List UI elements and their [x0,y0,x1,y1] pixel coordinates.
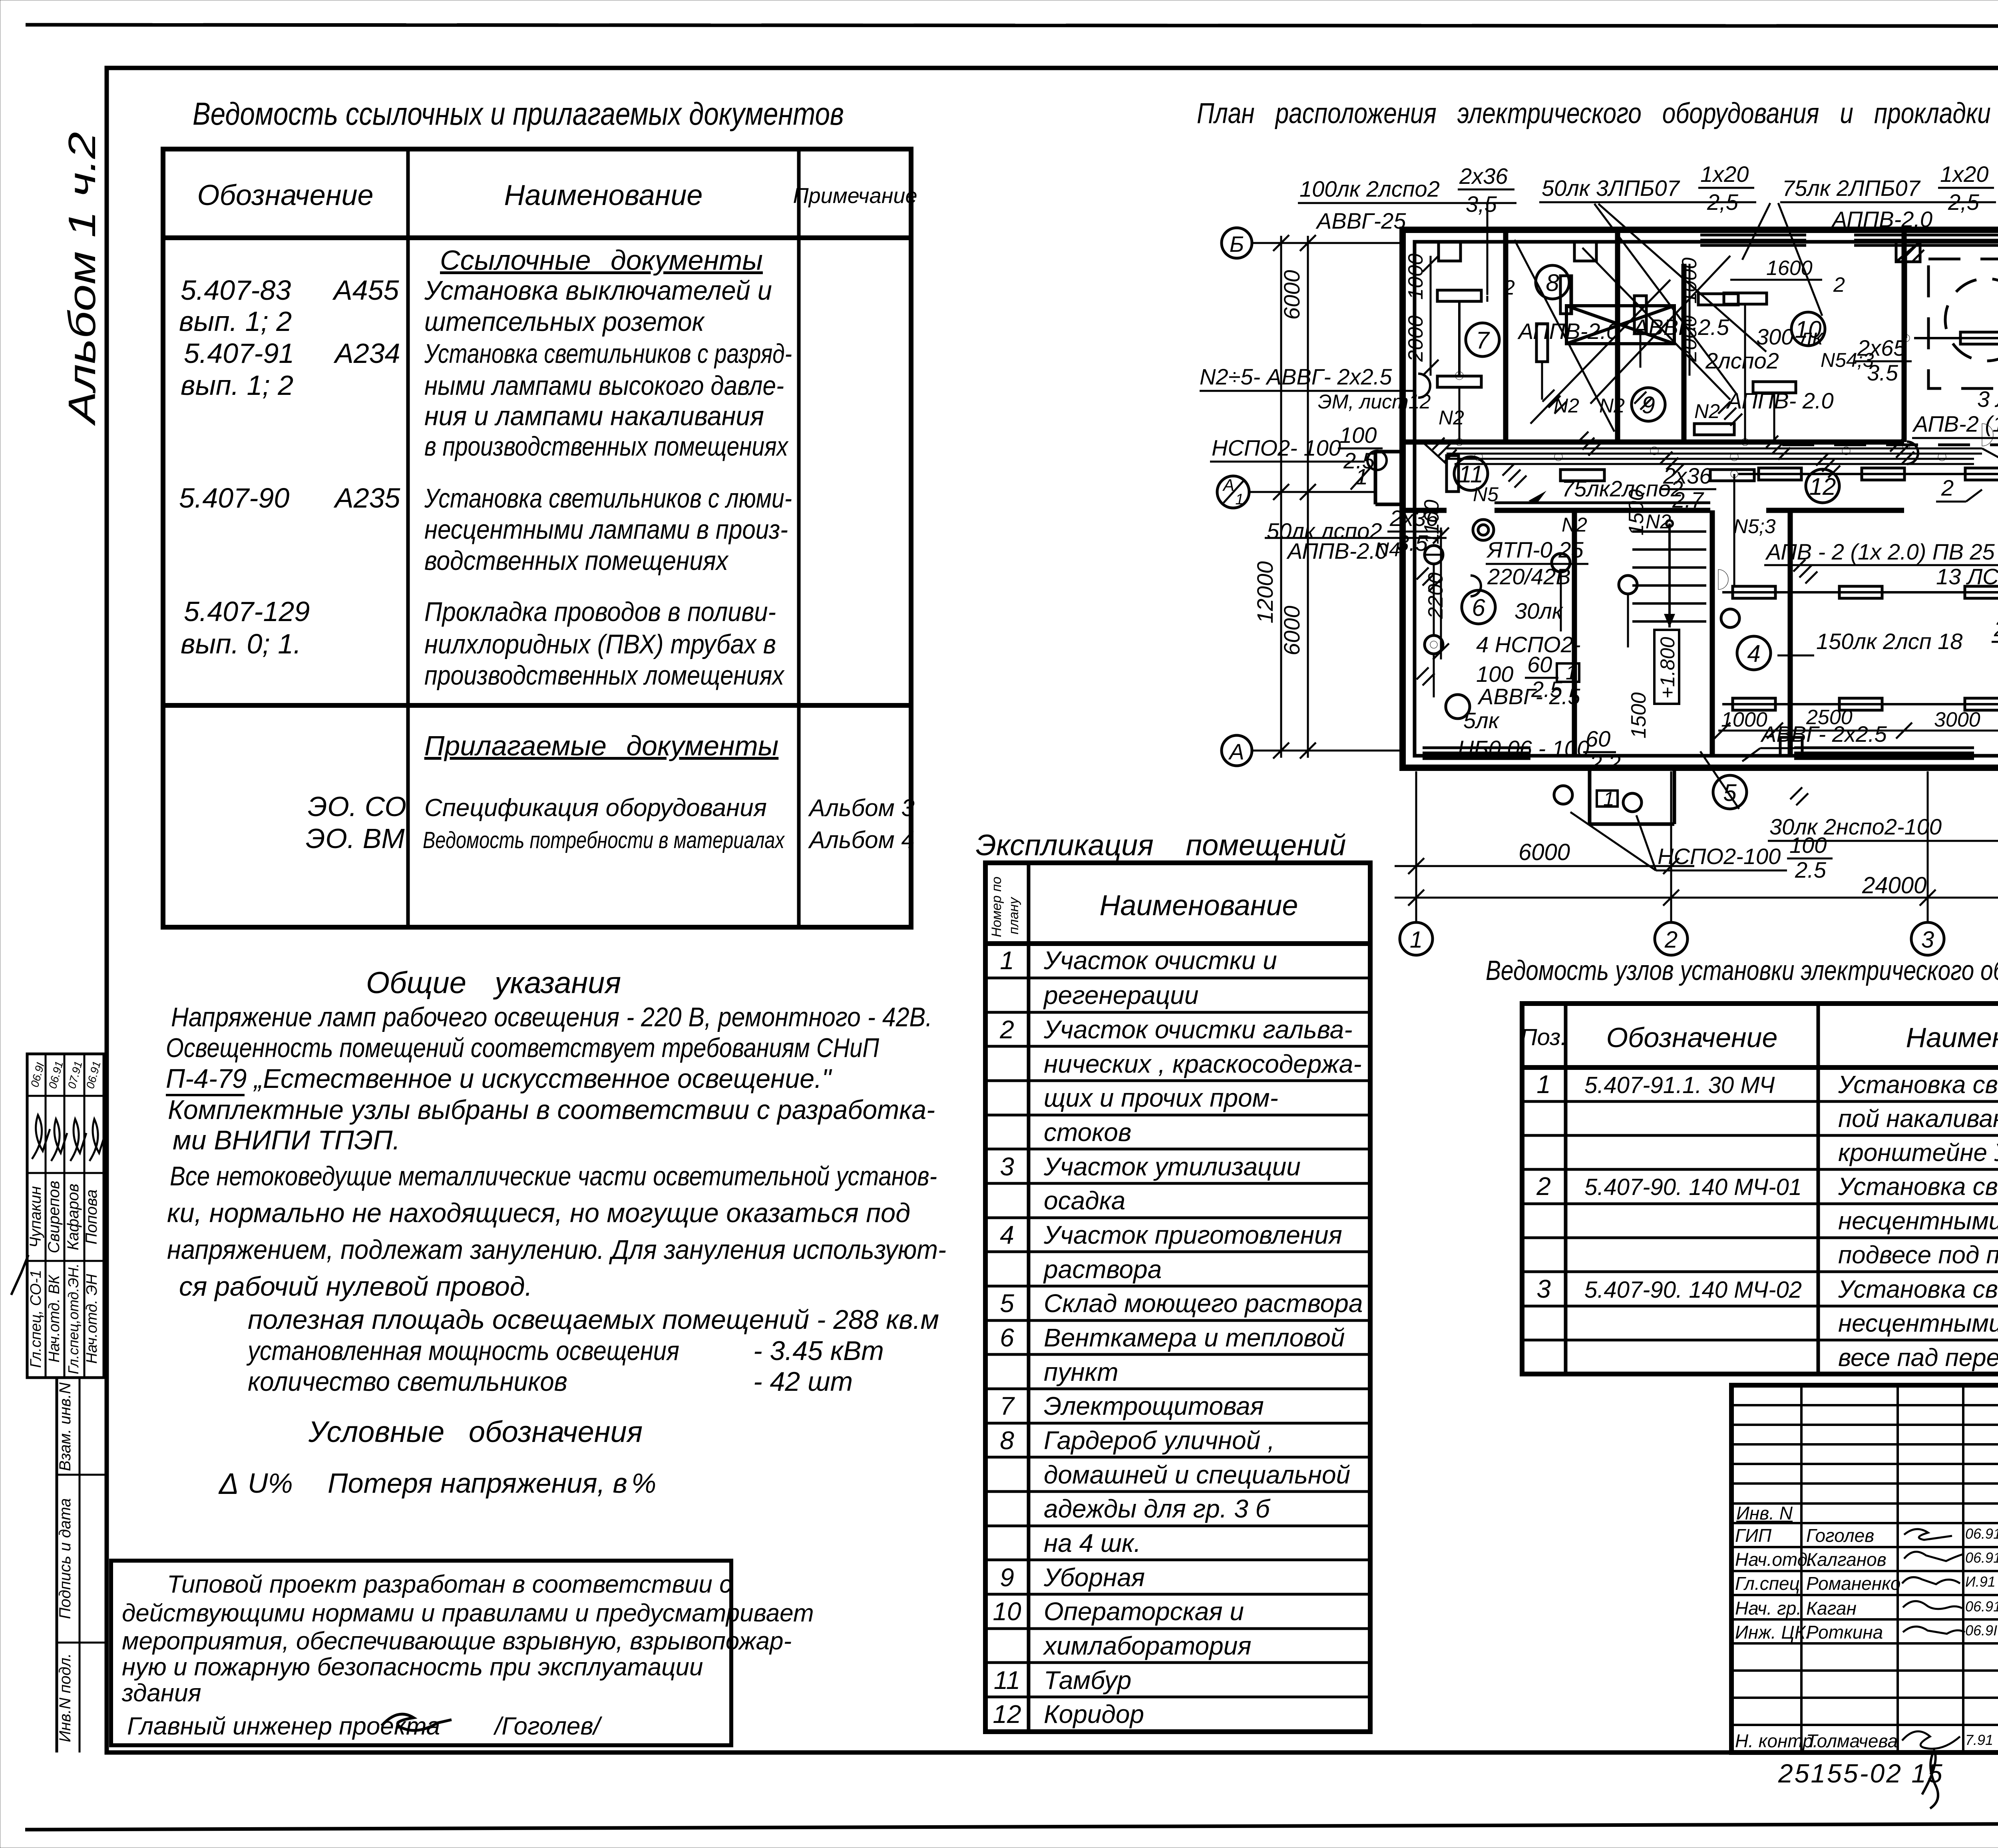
svg-text:домашней и специальной: домашней и специальной [1044,1460,1350,1489]
svg-text:Склад моющего раствора: Склад моющего раствора [1044,1289,1363,1318]
switch symbols [1418,374,1918,596]
svg-text:Типовой проект разработан: Типовой проект разработан в соответствии… [167,1571,732,1598]
svg-text:Номер по: Номер по [989,876,1004,937]
svg-text:06.91: 06.91 [1965,1525,1998,1542]
svg-text:ЭМ, лист12: ЭМ, лист12 [1318,390,1431,413]
svg-text:1: 1 [1000,946,1014,975]
svg-text:2: 2 [1664,927,1678,953]
room 10 luminaires [1724,257,1845,393]
left side plan labels [1200,364,1447,564]
svg-text:24000: 24000 [1862,872,1926,898]
svg-text:- 42 шт: - 42 шт [753,1366,853,1397]
svg-text:штепсельных розеток: штепсельных розеток [424,307,705,337]
svg-text:План расположения электриче: План расположения электрического оборудо… [1197,98,1998,129]
svg-text:Комплектные узлы выбраны: Комплектные узлы выбраны в соответствии … [168,1095,935,1125]
svg-text:60: 60 [1586,726,1610,751]
svg-text:АВВГ·2.5: АВВГ·2.5 [1632,315,1729,340]
corridor wires [1423,442,1998,464]
svg-text:Потеря напряжения, в: Потеря напряжения, в [328,1468,627,1499]
svg-text:А234: А234 [333,338,400,369]
svg-text:АППВ-2.0: АППВ-2.0 [1831,207,1932,232]
svg-text:2.5: 2.5 [1795,857,1827,882]
svg-text:Общие указания: Общие указания [366,966,621,1000]
hall annotation 150lk row4 [1777,616,1998,666]
svg-text:Поз.: Поз. [1520,1024,1567,1050]
svg-text:стоков: стоков [1044,1118,1131,1147]
svg-text:весе пад перекрытием: весе пад перекрытием [1838,1344,1998,1372]
svg-text:11: 11 [994,1666,1020,1695]
svg-text:7.91: 7.91 [1965,1732,1993,1748]
svg-text:Установка светильников с люм: Установка светильников с люми- [424,483,792,514]
svg-text:Ссылочные документы: Ссылочные документы [440,245,763,276]
svg-text:Гл.спец.: Гл.спец. [1735,1573,1805,1594]
svg-text:N4: N4 [1375,538,1400,561]
svg-text:30лк: 30лк [1514,598,1564,623]
svg-text:И.91: И.91 [1965,1573,1996,1590]
svg-text:3: 3 [1921,927,1934,953]
svg-text:8: 8 [1000,1426,1014,1455]
svg-text:производственных ломещениях: производственных ломещениях [424,660,785,691]
svg-text:Все нетоковедущие металличе: Все нетоковедущие металлические части ос… [170,1161,937,1191]
svg-text:3: 3 [1000,1152,1014,1181]
svg-text:N2: N2 [1694,400,1720,422]
svg-text:10: 10 [993,1597,1021,1626]
extra junction dots [1430,335,1910,648]
svg-text:плану: плану [1006,896,1021,934]
svg-text:АВВГ- 2.5: АВВГ- 2.5 [1477,684,1580,709]
svg-text:вып. 0; 1.: вып. 0; 1. [181,628,301,659]
wall window strips top [1700,235,1998,245]
svg-text:Чупакин: Чупакин [27,1186,44,1248]
svg-text:Обозначение: Обозначение [1606,1022,1778,1053]
hall annotation APV group2 [1912,411,1998,502]
svg-text:Наименование: Наименование [1906,1022,1998,1053]
svg-text:2000: 2000 [1404,315,1427,362]
svg-text:ки, нормально не находящиеся: ки, нормально не находящиеся, но могущие… [167,1198,910,1228]
svg-text:ЯТП-0.25: ЯТП-0.25 [1486,537,1584,562]
svg-text:/Гоголев/: /Гоголев/ [493,1713,603,1740]
svg-text:Экспликация помещений: Экспликация помещений [976,828,1346,862]
room 8 luminaires + diagonals [1514,240,1670,432]
left margin attribute cells [11,1255,105,1752]
svg-text:вып. 1; 2: вып. 1; 2 [181,370,293,401]
svg-text:2: 2 [1941,475,1954,500]
luminaire row 2 [1738,468,1998,480]
svg-text:щих и прочих пром-: щих и прочих пром- [1044,1083,1278,1112]
svg-text:Участок очистки гальва-: Участок очистки гальва- [1043,1015,1353,1044]
svg-text:регенерации: регенерации [1043,981,1198,1010]
svg-text:1000: 1000 [1404,253,1427,300]
dashed room 3 boundary [1928,259,1998,388]
svg-text:Ведомость ссылочных и прила: Ведомость ссылочных и прилагаемых докуме… [193,96,844,131]
left margin signature table [27,1054,105,1378]
svg-text:осадка: осадка [1044,1186,1125,1215]
svg-text:4: 4 [1747,640,1760,667]
svg-text:несцентными лампами на под: несцентными лампами на под- [1838,1310,1998,1337]
svg-text:N5: N5 [1473,483,1498,506]
label 50lk LSPO2 [1265,506,1447,564]
building outer wall [1403,230,1998,768]
svg-text:06.91: 06.91 [1965,1549,1998,1566]
svg-text:АВВГ- 2х2.5: АВВГ- 2х2.5 [1760,721,1887,747]
svg-text:3 ЛСП18: 3 ЛСП18 [1977,386,1998,412]
svg-text:Наименование: Наименование [1100,890,1298,922]
bottom inner dimension row [1714,706,1998,739]
svg-text:вып. 1; 2: вып. 1; 2 [179,306,292,337]
hall annotation 13 LSP18 [1936,551,1998,628]
stair treads [1632,520,1706,627]
corridor label 75lk [1528,463,1716,512]
svg-text:ную и пожарную безопаснос: ную и пожарную безопасность при эксплуат… [122,1653,703,1681]
svg-text:Установка светильника с люм: Установка светильника с люми· [1838,1276,1998,1303]
svg-text:5лк: 5лк [1463,708,1500,733]
sheet top edge line [26,25,1998,26]
svg-text:1: 1 [1410,927,1423,953]
svg-text:7: 7 [1476,327,1490,354]
label 100lk group1 [1298,163,1516,233]
svg-text:06.9I: 06.9I [1965,1622,1997,1639]
svg-text:Венткамера и тепловой: Венткамера и тепловой [1044,1323,1345,1352]
svg-text:Попова: Попова [83,1189,100,1245]
svg-text:АППВ-2.0: АППВ-2.0 [1517,319,1619,344]
svg-text:несцентными лампами на: несцентными лампами на [1838,1207,1998,1235]
svg-text:полезная площадь освещаемы: полезная площадь освещаемых помещений - … [248,1304,939,1335]
svg-text:А: А [1222,476,1234,494]
svg-text:Примечание: Примечание [793,184,917,208]
svg-text:2: 2 [1536,1172,1551,1201]
svg-text:количество светильников: количество светильников [248,1366,567,1397]
interior partition room10|hall [1902,230,1907,442]
svg-text:8: 8 [1546,269,1559,296]
svg-text:60: 60 [1527,652,1552,677]
svg-text:N2: N2 [1646,510,1671,533]
bottom dimension lines [1395,771,1998,922]
svg-text:Участок очистки и: Участок очистки и [1043,946,1277,975]
svg-text:Романенко: Романенко [1806,1573,1900,1594]
hall annotation APV mid [1733,515,1998,565]
svg-text:Толмачева: Толмачева [1806,1731,1898,1751]
svg-text:12000: 12000 [1252,561,1278,623]
svg-text:Инв. N: Инв. N [1736,1503,1793,1523]
svg-text:6000: 6000 [1279,270,1304,320]
hall left wall [1788,510,1793,756]
svg-text:5.407-90. 140 МЧ-02: 5.407-90. 140 МЧ-02 [1584,1277,1802,1303]
svg-text:Н. контр.: Н. контр. [1735,1731,1818,1751]
svg-text:06.91: 06.91 [46,1060,66,1090]
svg-text:2лспо2: 2лспо2 [1705,348,1779,373]
svg-text:07.91: 07.91 [66,1060,85,1090]
svg-text:подвесе под перекрытием: подвесе под перекрытием [1838,1241,1998,1269]
svg-text:1х20: 1х20 [1940,161,1988,187]
svg-text:N2: N2 [1562,514,1587,536]
svg-text:ГИП: ГИП [1735,1525,1772,1546]
svg-text:пункт: пункт [1044,1358,1118,1386]
svg-text:АВВГ-25: АВВГ-25 [1315,208,1406,233]
svg-text:Нач.отд. ЭН: Нач.отд. ЭН [84,1274,100,1364]
room 10 labels [1705,324,1912,413]
svg-text:Нач.отд.: Нач.отд. [1735,1549,1813,1570]
corridor bottom wall [1403,503,1904,510]
svg-text:НБ0 06 - 100: НБ0 06 - 100 [1458,736,1589,761]
reference documents table [163,96,917,927]
svg-text:5.407-83: 5.407-83 [181,275,291,306]
luminaire row 3 [1722,586,1998,598]
svg-text:ЭО. СО: ЭО. СО [308,791,406,822]
svg-text:12: 12 [1809,473,1836,500]
bottom annex walls [1590,768,1674,824]
svg-text:ми ВНИПИ ТПЭП.: ми ВНИПИ ТПЭП. [173,1125,400,1155]
svg-text:1600: 1600 [1766,257,1813,280]
svg-text:2: 2 [999,1015,1014,1044]
svg-text:пой накаливания на стене н: пой накаливания на стене на [1838,1105,1998,1133]
room 9 inner box [1566,248,1730,404]
svg-text:N5;3: N5;3 [1733,515,1776,538]
wall window strips bottom [1423,748,1998,759]
svg-text:N2: N2 [1554,394,1579,417]
svg-text:Ведомость потребности в мате: Ведомость потребности в материалах [423,827,785,853]
svg-text:Инв.N подл.: Инв.N подл. [56,1653,74,1742]
svg-text:75лк 2ЛПБ07: 75лк 2ЛПБ07 [1782,175,1921,201]
svg-text:химлаборатория: химлаборатория [1043,1631,1252,1660]
interior partition room7|8 [1503,230,1508,442]
svg-text:Участок утилизации: Участок утилизации [1043,1152,1301,1181]
svg-text:- 3.45 кВт: - 3.45 кВт [753,1336,884,1366]
svg-text:Освещенность помещений соот: Освещенность помещений соответствует тре… [166,1033,880,1063]
svg-text:U%: U% [248,1468,293,1499]
svg-text:25155-02 15: 25155-02 15 [1778,1758,1944,1788]
svg-text:150лк 2лсп 18: 150лк 2лсп 18 [1816,629,1962,654]
luminaire row 1 (100lx) [1914,332,1998,344]
bottom annex labels [1570,751,1998,882]
svg-text:Установка светильника с люм: Установка светильника с люми - [1838,1173,1998,1201]
wall pilasters [1439,242,1998,756]
svg-text:Установка выключателей и: Установка выключателей и [424,275,772,306]
hall annotation 100lk LSP18 [1977,276,1998,424]
svg-text:5.407-90. 140 МЧ-01: 5.407-90. 140 МЧ-01 [1584,1174,1802,1200]
svg-text:АППВ-2.0: АППВ-2.0 [1286,538,1388,564]
svg-text:3000: 3000 [1934,708,1980,731]
title block signatures squiggles [1902,1529,1965,1749]
svg-text:НСПО2- 100: НСПО2- 100 [1212,435,1341,460]
interior partition room9|10 [1682,264,1687,442]
svg-text:Прилагаемые документы: Прилагаемые документы [424,730,779,761]
svg-text:в производственных помещениях: в производственных помещениях [424,431,789,462]
svg-text:1х20: 1х20 [1700,161,1749,187]
svg-text:2: 2 [1833,273,1845,297]
svg-text:100лк 2лспо2: 100лк 2лспо2 [1299,176,1440,201]
svg-text:АППВ- 2.0: АППВ- 2.0 [1726,388,1834,413]
svg-text:здания: здания [121,1679,201,1707]
svg-text:Альбом 3: Альбом 3 [808,795,915,821]
entry vestibule walls bottom-left [1375,452,1403,504]
svg-text:ЭО. ВМ: ЭО. ВМ [306,823,405,854]
svg-text:Роткина: Роткина [1806,1622,1883,1643]
svg-text:Условные обозначения: Условные обозначения [308,1415,643,1448]
svg-text:5.407-129: 5.407-129 [184,596,310,627]
svg-text:06.9I: 06.9I [28,1061,47,1088]
svg-text:7: 7 [1000,1392,1015,1420]
svg-text:АПВ - 2 (1х 2.0) ПВ 25: АПВ - 2 (1х 2.0) ПВ 25 [1765,539,1995,564]
svg-text:50лк 3ЛПБ07: 50лк 3ЛПБ07 [1542,175,1680,201]
svg-text:Участок приготовления: Участок приготовления [1043,1221,1342,1249]
svg-text:Инж. ЦК.: Инж. ЦК. [1735,1622,1811,1643]
svg-text:Напряжение ламп рабочего о: Напряжение ламп рабочего освещения - 220… [171,1002,932,1032]
room 6 upper labels [1473,483,1671,589]
room 9 luminaires [1694,294,1738,435]
svg-text:5: 5 [1000,1289,1014,1318]
svg-text:А235: А235 [333,482,401,514]
bottom grid bubbles [1400,922,1998,955]
svg-text:АПВ-2 (1х 2.0) Пв 25: АПВ-2 (1х 2.0) Пв 25 [1912,411,1998,436]
label NSPO2-100 left [1210,422,1387,490]
svg-text:несцентными лампами в произ: несцентными лампами в произ- [424,514,788,545]
svg-text:Гл.спец,отд.ЭН.: Гл.спец,отд.ЭН. [65,1263,82,1374]
svg-text:Наименование: Наименование [504,179,703,211]
sheet bottom edge line [25,1822,1998,1830]
label AVVG bottom [1742,721,1902,761]
svg-text:Калганов: Калганов [1806,1549,1887,1570]
svg-text:мероприятия, обеспечивающие: мероприятия, обеспечивающие взрывную, вз… [122,1627,792,1655]
svg-text:100: 100 [1339,422,1377,448]
svg-text:Гл.спец, СО-1: Гл.спец, СО-1 [28,1270,44,1368]
svg-text:ния и лампами накаливания: ния и лампами накаливания [424,401,764,431]
svg-text:водственных помещениях: водственных помещениях [424,546,729,576]
svg-text:2.7: 2.7 [1672,487,1704,512]
svg-text:13 ЛСП 18: 13 ЛСП 18 [1936,564,1998,589]
svg-text:2: 2 [1503,276,1515,299]
svg-text:Кафаров: Кафаров [64,1184,82,1251]
svg-text:ся рабочий нулевой про: ся рабочий нулевой провод. [179,1271,532,1302]
svg-text:100: 100 [1476,661,1513,687]
svg-text:1000: 1000 [1721,708,1767,731]
room 7 luminaires [1437,276,1515,387]
svg-text:4: 4 [1000,1221,1014,1249]
partition room6|stair [1572,510,1577,756]
room 6 lamps [1425,520,1739,812]
room number circles [1454,265,1998,809]
left grid of title block [1731,1385,1998,1752]
label N2-5 AVVG [1200,364,1431,413]
svg-text:5.407-91.1. 30 МЧ: 5.407-91.1. 30 МЧ [1584,1072,1775,1098]
svg-text:А: А [1228,739,1244,764]
svg-text:1: 1 [1536,1070,1551,1099]
svg-text:3.5: 3.5 [1867,360,1898,385]
svg-text:2х36: 2х36 [1663,463,1712,488]
interior partition room8|9 [1615,230,1620,442]
wall fixtures filled [1718,233,1998,749]
svg-text:Свирепов: Свирепов [45,1181,63,1253]
pilaster hatch [1896,242,1920,262]
svg-text:220/42В: 220/42В [1487,564,1571,589]
svg-text:6000: 6000 [1518,839,1570,865]
svg-text:кронштейне У116УЗ: кронштейне У116УЗ [1838,1139,1998,1167]
svg-text:9: 9 [1000,1563,1014,1592]
svg-text:Нач. гр.: Нач. гр. [1735,1598,1801,1619]
svg-text:+1.800: +1.800 [1656,637,1679,699]
annotations below frame [1778,1750,1998,1808]
svg-text:нических , краскосодержа-: нических , краскосодержа- [1044,1049,1362,1078]
svg-text:1500: 1500 [1627,692,1650,739]
room wiring drops [1425,252,1906,697]
label 75lk group [1780,161,1996,232]
title block [1731,1385,1998,1755]
hatch tick groups (wire risers) [1417,244,1998,805]
room 8 labels [1517,315,1729,344]
svg-text:06.91: 06.91 [84,1060,103,1090]
nodes list table [1486,955,1998,1374]
svg-text:3: 3 [1536,1274,1551,1303]
svg-text:Коридор: Коридор [1044,1700,1144,1729]
svg-text:100: 100 [1789,832,1827,858]
svg-text:Альбом 4: Альбом 4 [808,826,915,853]
svg-text:Взам. инв.N: Взам. инв.N [56,1382,74,1471]
svg-text:6: 6 [1472,594,1485,621]
svg-text:2х36: 2х36 [1459,163,1508,189]
svg-text:нилхлоридных (ПВХ) трубах в: нилхлоридных (ПВХ) трубах в [424,629,776,659]
svg-text:Прокладка проводов в поливи-: Прокладка проводов в поливи- [424,597,776,627]
luminaire row 4 [1722,698,1998,710]
svg-text:Б: Б [1230,231,1244,257]
svg-text:А455: А455 [332,275,400,306]
junction dots [1455,220,1998,461]
svg-text:Подпись и дата: Подпись и дата [56,1498,74,1619]
corridor luminaire [1447,456,1754,492]
svg-text:Каган: Каган [1806,1598,1857,1619]
svg-text:Нач.отд. ВК: Нач.отд. ВК [46,1274,63,1362]
corridor top wall [1403,440,1904,445]
svg-text:адежды для гр. 3 б: адежды для гр. 3 б [1044,1494,1271,1523]
svg-text:Тамбур: Тамбур [1044,1666,1131,1695]
svg-text:N2÷5- АВВГ- 2х2.5: N2÷5- АВВГ- 2х2.5 [1200,364,1392,389]
svg-text:2.2: 2.2 [1589,750,1621,775]
svg-text:2х36: 2х36 [1994,616,1998,641]
svg-text:раствора: раствора [1043,1255,1162,1284]
svg-text:N2: N2 [1599,394,1625,417]
stair right wall [1710,510,1715,756]
svg-text:Альбом 1 ч.2: Альбом 1 ч.2 [61,132,103,426]
room 6 labels [1458,598,1621,775]
svg-text:300 лк: 300 лк [1756,324,1824,349]
svg-text:06.91: 06.91 [1965,1598,1998,1615]
standard project statement box [111,1561,814,1745]
general notes [166,966,946,1500]
svg-text:Спецификация оборудования: Спецификация оборудования [424,794,767,822]
room labels small N2 [1439,349,1874,429]
svg-text:1: 1 [1566,661,1577,684]
svg-text:Ведомость узлов установки: Ведомость узлов установки электрического… [1486,955,1998,986]
svg-text:Электрощитовая: Электрощитовая [1044,1392,1264,1420]
left grid bubbles [1217,228,1403,766]
svg-text:2200: 2200 [1424,572,1447,619]
label leader lines from top annotations [1487,192,1998,394]
dashed group line APV [1782,444,1998,446]
svg-text:Установка светильника с ла: Установка светильника с лам- [1838,1071,1998,1099]
left vertical dimension lines [1273,235,1316,759]
svg-text:1: 1 [1235,491,1244,508]
stair landing mark +1.800 [1654,630,1679,704]
svg-text:12: 12 [993,1700,1021,1729]
svg-text:5.407-90: 5.407-90 [179,482,289,514]
svg-text:ными лампами высокого давле-: ными лампами высокого давле- [424,370,784,401]
svg-text:Уборная: Уборная [1043,1563,1145,1592]
svg-text:на 4 шк.: на 4 шк. [1044,1529,1141,1557]
svg-text:5.407-91: 5.407-91 [184,338,294,369]
svg-text:Установка светильников с разря: Установка светильников с разряд- [424,339,792,369]
svg-text:Гоголев: Гоголев [1806,1525,1874,1546]
svg-text:действующими нормами и пра: действующими нормами и правилами и преду… [122,1599,814,1627]
explication table [976,828,1370,1732]
svg-text:установленная мощность о: установленная мощность освещения [246,1336,679,1366]
